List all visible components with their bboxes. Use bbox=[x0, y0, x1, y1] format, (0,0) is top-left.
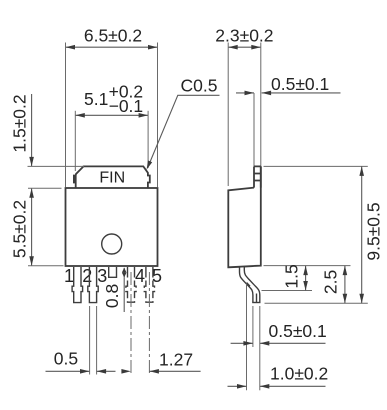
svg-text:0.5±0.1: 0.5±0.1 bbox=[271, 74, 329, 94]
lead foot inner line bbox=[256, 294, 258, 303]
extension line right 2.3 (body back) bbox=[260, 43, 262, 167]
leader arrowhead C0.5 bbox=[147, 160, 153, 169]
svg-text:6.5±0.2: 6.5±0.2 bbox=[84, 26, 142, 46]
pin 1 bbox=[72, 267, 83, 303]
pin 2 bbox=[88, 267, 98, 303]
arrowhead right 2.3 bbox=[251, 45, 260, 50]
dimension 1.5 (lead bend) bbox=[305, 266, 307, 291]
svg-text:1.5: 1.5 bbox=[282, 264, 302, 288]
fin front extension line bbox=[253, 93, 255, 166]
svg-text:1.27: 1.27 bbox=[159, 350, 193, 370]
arrowhead 0.5 right-pointing bbox=[80, 369, 90, 374]
dimension line 1.5 (vertical) bbox=[31, 94, 33, 166]
dimension line 5.1 bbox=[75, 114, 148, 116]
pin 2 extension lines (for 0.5 dim) bbox=[89, 306, 91, 375]
extension line bend end (right) bbox=[262, 290, 313, 292]
svg-text:C0.5: C0.5 bbox=[181, 76, 218, 96]
arrowhead right 6.5 bbox=[148, 45, 158, 50]
pin 5 centerline (dash-dot) bbox=[148, 272, 150, 375]
svg-text:2.5: 2.5 bbox=[321, 270, 341, 294]
package body (front view) bbox=[66, 188, 158, 266]
svg-text:−0.1: −0.1 bbox=[109, 96, 144, 116]
extension line foot back bbox=[259, 306, 261, 390]
package body (side view) bbox=[228, 166, 260, 267]
arrowhead left 6.5 bbox=[66, 45, 76, 50]
svg-text:5.1: 5.1 bbox=[84, 89, 108, 109]
svg-text:5.5±0.2: 5.5±0.2 bbox=[10, 200, 30, 258]
extension line lead front (1.0 dim) bbox=[246, 284, 248, 391]
dimension 0.8 arrows bbox=[123, 268, 125, 278]
extension line left 2.3 (body front) bbox=[227, 43, 229, 187]
pin 4 hidden part (dashed) bbox=[126, 281, 136, 303]
dimension line 2.3 bbox=[228, 46, 261, 48]
svg-text:FIN: FIN bbox=[99, 169, 125, 186]
mounting hole circle bbox=[102, 234, 122, 254]
extension line body bottom (right) bbox=[264, 265, 351, 267]
svg-text:1.0±0.2: 1.0±0.2 bbox=[270, 364, 328, 384]
pin 4 centerline (dash-dot) bbox=[130, 272, 132, 375]
bent lead (pins 4,5 side view) bbox=[240, 267, 260, 303]
arrowhead down 5.5 bbox=[29, 256, 34, 266]
arrowhead down 1.5 bbox=[29, 157, 34, 167]
extension line left 6.5 bbox=[65, 43, 67, 188]
dimension line 1.0 bbox=[228, 385, 247, 387]
dimension line 0.5 bottom bbox=[231, 342, 253, 344]
svg-text:0.5: 0.5 bbox=[54, 349, 78, 369]
dimension 2.5 (lead tip) bbox=[344, 266, 346, 304]
arrowhead right-pointing (foot front) bbox=[243, 341, 253, 346]
svg-text:1: 1 bbox=[64, 266, 74, 286]
dimension line bottom row bbox=[46, 370, 90, 372]
arrowhead 0.5 left-pointing bbox=[97, 369, 107, 374]
fin (side view) with serrations bbox=[254, 166, 261, 187]
pin 5 hidden part (dashed) bbox=[144, 281, 154, 303]
svg-text:0.8: 0.8 bbox=[102, 284, 122, 308]
dimension line 6.5 bbox=[66, 46, 158, 48]
fin outline (front view) bbox=[74, 166, 150, 188]
dimension line 0.5 top bbox=[236, 92, 254, 94]
svg-text:1.5±0.2: 1.5±0.2 bbox=[10, 94, 30, 152]
svg-text:9.5±0.5: 9.5±0.5 bbox=[364, 202, 384, 260]
svg-text:3: 3 bbox=[97, 266, 107, 286]
lead foot bottom edge bbox=[252, 302, 260, 304]
arrowhead 1.27 right-pointing bbox=[121, 369, 130, 374]
extension line right 5.1 bbox=[147, 111, 149, 168]
arrowhead left 2.3 bbox=[228, 45, 238, 50]
dimension 9.5±0.5 (overall height) bbox=[361, 166, 363, 303]
extension line fin top (right) bbox=[264, 165, 368, 167]
extension line left 5.1 bbox=[74, 111, 76, 171]
extension line foot front (0.5 dim) bbox=[252, 306, 254, 347]
extension line right 6.5 bbox=[157, 43, 159, 188]
leader line C0.5 bbox=[150, 95, 220, 162]
arrowhead left-pointing (foot back) bbox=[260, 341, 270, 346]
arrowhead 1.27 left-pointing bbox=[149, 369, 159, 374]
svg-text:2.3±0.2: 2.3±0.2 bbox=[215, 26, 273, 46]
arrowhead right 5.1 bbox=[139, 113, 149, 118]
dimension 0.8 tail bbox=[123, 277, 125, 312]
dimension line 5.5 (vertical) bbox=[31, 188, 33, 265]
svg-text:4: 4 bbox=[135, 266, 145, 286]
arrowhead right-pointing (fin front) bbox=[245, 91, 255, 96]
arrowhead left-pointing (foot back 1.0) bbox=[260, 384, 270, 389]
bend mark on lead bbox=[247, 283, 250, 287]
arrowhead left-pointing (fin back) bbox=[262, 91, 272, 96]
extension line body top (left) bbox=[28, 187, 62, 189]
arrowhead left 5.1 bbox=[75, 113, 85, 118]
pin 5 (solid upper part) bbox=[146, 267, 153, 278]
arrowhead right-pointing (lead front) bbox=[237, 384, 247, 389]
svg-text:2: 2 bbox=[82, 266, 92, 286]
pin 3 stub bbox=[109, 267, 117, 277]
pin 4 (solid upper part) bbox=[128, 267, 135, 278]
extension line lead tip (right) bbox=[265, 302, 368, 304]
svg-text:0.5±0.1: 0.5±0.1 bbox=[269, 321, 327, 341]
extension line body bottom (left) bbox=[28, 265, 64, 267]
extension line fin top (left) bbox=[28, 165, 85, 167]
arrowhead up 5.5 bbox=[29, 188, 34, 198]
